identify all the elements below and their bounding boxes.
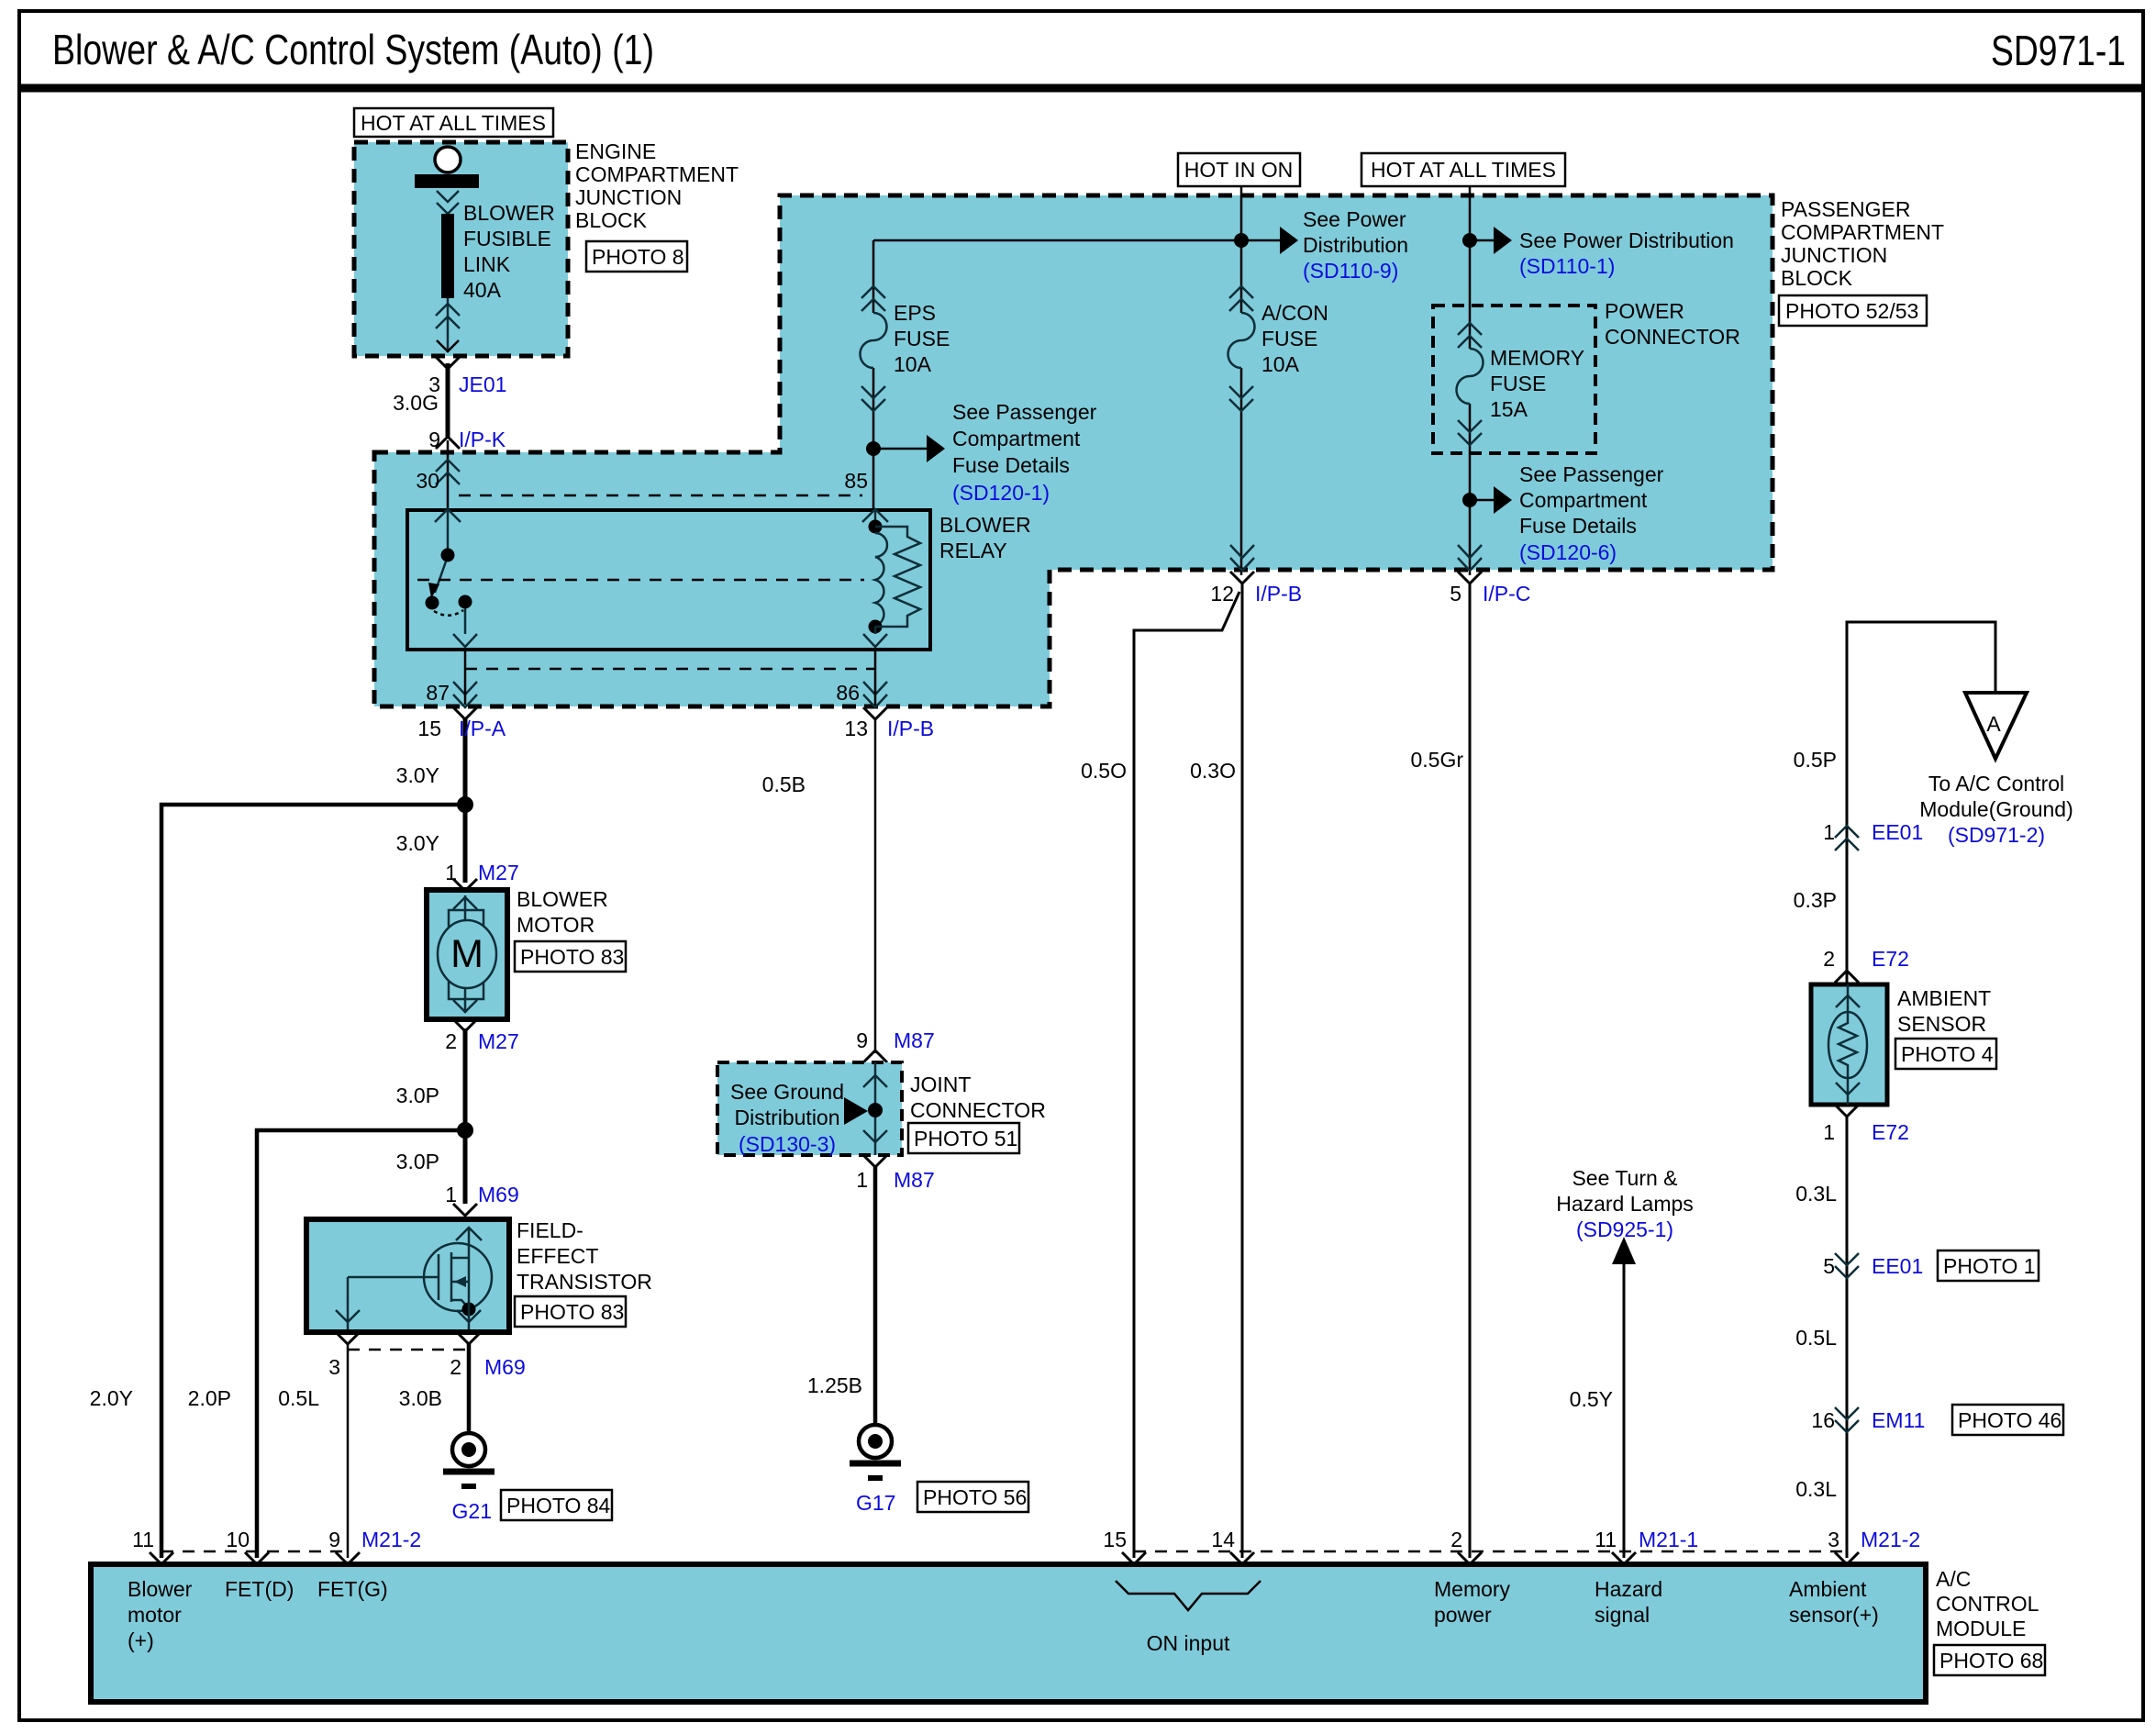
svg-text:Blower & A/C Control System (A: Blower & A/C Control System (Auto) (1) [52,26,654,73]
PHOTO 83 label (FET) [515,1296,626,1327]
wire 0.5P ambient sensor feed with top jog to A [1847,622,1995,851]
connector I/P-B pin 13 [844,707,934,740]
svg-text:EM11: EM11 [1872,1408,1925,1432]
callout see power distribution SD110-9 [1241,207,1408,283]
wire 1.25B from joint connector to ground G17 [873,1165,878,1425]
connector I/P-K pin 9 [428,428,506,451]
svg-text:I/P-B: I/P-B [887,717,934,740]
PHOTO 52/53 label [1779,295,1927,326]
svg-text:Hazard: Hazard [1595,1577,1662,1601]
callout to A/C control module ground SD971-2 [1919,772,2073,847]
node A to A/C control module ground [1965,693,2027,759]
svg-text:(SD120-1): (SD120-1) [952,481,1050,505]
wire 0.5O branch with jog to module pin 15 [1134,592,1239,1558]
svg-text:Distribution: Distribution [1303,233,1408,257]
svg-text:PHOTO 1: PHOTO 1 [1943,1254,2036,1278]
svg-text:PHOTO 52/53: PHOTO 52/53 [1785,299,1918,323]
svg-text:COMPARTMENT: COMPARTMENT [1781,220,1944,244]
svg-text:(SD971-2): (SD971-2) [1948,823,2045,847]
svg-text:12: 12 [1210,582,1234,606]
svg-text:BLOCK: BLOCK [1781,266,1853,290]
svg-text:COMPARTMENT: COMPARTMENT [575,162,739,186]
svg-text:A: A [1986,712,2001,736]
svg-text:1: 1 [445,1183,457,1206]
svg-text:(SD120-6): (SD120-6) [1519,540,1617,564]
svg-text:CONNECTOR: CONNECTOR [1605,325,1740,349]
svg-text:M87: M87 [894,1168,935,1192]
svg-text:See Power Distribution: See Power Distribution [1519,228,1734,252]
svg-text:Hazard Lamps: Hazard Lamps [1556,1192,1694,1216]
svg-text:SD971-1: SD971-1 [1991,27,2126,74]
relay switch [426,510,478,647]
module pin 14 connector [1211,1528,1254,1564]
svg-text:10A: 10A [1261,352,1300,376]
svg-text:M21-2: M21-2 [1861,1528,1920,1551]
callout see turn and hazard lamps SD925-1 [1556,1166,1694,1241]
field-effect transistor Q1 [306,1219,509,1332]
svg-text:10: 10 [226,1528,250,1551]
svg-text:Blower: Blower [128,1577,193,1601]
wire EPS fuse vertical [872,240,875,313]
svg-text:16: 16 [1811,1408,1835,1432]
svg-text:PHOTO 56: PHOTO 56 [923,1485,1027,1509]
connector M27 pin 1 [445,861,519,891]
svg-text:15: 15 [417,717,441,740]
svg-text:2.0P: 2.0P [188,1386,231,1410]
wire memory fuse vertical (hot at all times) [1469,186,1472,349]
svg-text:See Ground: See Ground [730,1080,844,1104]
svg-text:TRANSISTOR: TRANSISTOR [517,1270,652,1294]
blower fusible link 40A [415,147,479,352]
svg-text:0.5P: 0.5P [1794,748,1837,772]
svg-text:0.5Gr: 0.5Gr [1410,748,1463,772]
connector M69 pin 2 [450,1332,526,1379]
hazard arrowhead to turn and hazard lamps [1612,1237,1636,1264]
wire 3.0P from blower motor 2 to FET 1 [463,1028,468,1204]
svg-text:0.3O: 0.3O [1190,759,1236,783]
svg-text:PHOTO 68: PHOTO 68 [1939,1649,2043,1673]
power connector dashed box [1433,306,1595,453]
title separator line [19,84,2143,93]
svg-text:See Power: See Power [1303,207,1406,231]
svg-text:Module(Ground): Module(Ground) [1919,797,2073,821]
svg-text:15: 15 [1103,1528,1127,1551]
svg-text:Fuse Details: Fuse Details [1519,514,1637,538]
svg-text:sensor(+): sensor(+) [1789,1603,1879,1627]
svg-text:5: 5 [1823,1254,1835,1278]
I/P-B pin 12 exit arrow [1230,545,1254,571]
svg-text:Memory: Memory [1434,1577,1511,1601]
svg-text:AMBIENT: AMBIENT [1897,986,1991,1010]
dashed pin line module 15-14-2-11-3 [1134,1551,1847,1553]
ground G17 [850,1425,901,1515]
svg-text:3.0P: 3.0P [396,1084,439,1107]
I/P-C pin 5 exit arrow [1458,545,1482,571]
wire 3.0B from FET pin 2 to ground G21 [467,1343,472,1433]
svg-text:EPS: EPS [894,301,936,325]
svg-text:15A: 15A [1490,397,1528,421]
joint connector internal wire [863,1062,887,1155]
module pin 10 FET(D) connector [226,1528,269,1564]
svg-text:0.5O: 0.5O [1081,759,1127,783]
chevron arrow into relay region pin 30 [436,460,460,484]
svg-text:1: 1 [1823,1120,1835,1144]
wire from sensor E72 down through EE01 PHOTO1 and EM11 to module pin 3 [1846,1115,1849,1558]
module pin 3 ambient sensor connector M21-2 [1828,1528,1920,1564]
svg-text:EE01: EE01 [1872,820,1923,844]
junction node 3.0Y/2.0Y [457,796,473,813]
connector M69 pin 3 [328,1332,360,1379]
svg-text:1.25B: 1.25B [807,1373,862,1397]
blower motor [427,890,507,1019]
connector EE01 pin 1 [1823,820,1923,850]
svg-text:3.0G: 3.0G [393,391,439,415]
svg-text:1: 1 [1823,820,1835,844]
connector EM11 pin 16 [1811,1407,1925,1432]
svg-text:M: M [450,932,483,976]
connector E72 pin 2 [1823,947,1909,983]
svg-text:BLOWER: BLOWER [939,513,1031,537]
svg-text:PHOTO 84: PHOTO 84 [506,1494,611,1517]
svg-text:HOT AT ALL TIMES: HOT AT ALL TIMES [1371,158,1556,182]
svg-text:40A: 40A [463,278,502,302]
svg-text:0.5Y: 0.5Y [1570,1387,1613,1411]
connector I/P-A pin 15 [417,707,506,740]
callout see passenger compartment fuse details SD120-1 [873,400,1097,505]
callout see ground distribution SD130-3 [730,1080,868,1156]
svg-text:9: 9 [428,428,440,451]
svg-text:5: 5 [1450,582,1461,606]
svg-text:3.0Y: 3.0Y [396,763,439,787]
wire pin30 feed inside teal box [447,440,450,512]
svg-text:14: 14 [1211,1528,1235,1551]
svg-text:BLOWER: BLOWER [463,201,555,225]
svg-text:CONTROL: CONTROL [1936,1592,2039,1616]
connector M27 pin 2 [445,1019,519,1053]
svg-text:M21-2: M21-2 [361,1528,421,1551]
svg-text:EFFECT: EFFECT [517,1244,598,1268]
svg-text:PHOTO 46: PHOTO 46 [1958,1408,2062,1432]
svg-text:30: 30 [416,469,439,493]
svg-text:power: power [1434,1603,1492,1627]
svg-text:PHOTO 4: PHOTO 4 [1901,1042,1994,1066]
svg-text:JUNCTION: JUNCTION [575,185,682,209]
svg-text:FUSE: FUSE [1490,372,1546,395]
svg-text:MOTOR: MOTOR [517,913,595,937]
svg-text:See Passenger: See Passenger [1519,462,1664,486]
svg-text:motor: motor [128,1603,182,1627]
connector I/P-B pin 12 [1210,572,1302,606]
svg-text:PHOTO 83: PHOTO 83 [520,945,624,969]
svg-text:A/C: A/C [1936,1567,1971,1591]
module pin 11 hazard signal connector M21-1 [1595,1528,1698,1564]
svg-text:0.5B: 0.5B [762,773,806,796]
svg-text:M87: M87 [894,1028,935,1052]
wire 2.0Y branch to module pin 11 blower motor(+) [161,805,465,1558]
relay coil [863,510,887,647]
svg-text:FUSE: FUSE [894,327,950,350]
relay coil parallel resistor [875,527,920,627]
svg-text:JOINT: JOINT [910,1073,971,1096]
wire 0.5B from I/P-B 13 to joint connector M87 [874,717,877,1053]
svg-text:M27: M27 [478,861,519,884]
svg-text:M69: M69 [478,1183,519,1206]
PHOTO 68 label [1934,1645,2045,1675]
svg-text:2: 2 [450,1355,461,1379]
svg-text:Ambient: Ambient [1789,1577,1867,1601]
svg-text:ENGINE: ENGINE [575,139,656,163]
svg-text:86: 86 [836,681,860,705]
HOT AT ALL TIMES label (engine compartment) [354,108,553,137]
wire 0.3O from I/P-B 12 down to module pin 14 [1241,584,1244,1558]
svg-text:3: 3 [1828,1528,1839,1551]
wire 0.5Y hazard signal from module pin 11 up to arrow [1623,1261,1626,1558]
svg-text:10A: 10A [894,352,932,376]
PHOTO 56 label [917,1482,1028,1512]
node memory fuse to SD120-6 [1462,493,1477,507]
svg-text:0.5L: 0.5L [1795,1326,1837,1350]
connector M87 pin 9 [856,1028,935,1062]
svg-text:PHOTO 8: PHOTO 8 [592,245,684,269]
module pin 11 blower motor(+) connector [132,1528,173,1564]
PHOTO 51 label [908,1123,1019,1153]
svg-text:See Passenger: See Passenger [952,400,1097,424]
svg-text:HOT AT ALL TIMES: HOT AT ALL TIMES [361,111,546,135]
svg-text:3.0P: 3.0P [396,1150,439,1173]
svg-text:(+): (+) [128,1628,154,1652]
svg-text:RELAY: RELAY [939,539,1007,562]
svg-text:ON input: ON input [1147,1631,1230,1655]
svg-text:2: 2 [1450,1528,1462,1551]
svg-text:PASSENGER: PASSENGER [1781,197,1910,221]
svg-text:Distribution: Distribution [734,1106,839,1129]
svg-text:G21: G21 [452,1499,492,1523]
wire EPS fuse top horizontal feed [873,239,1241,242]
connector EE01 pin 5 [1823,1253,1923,1278]
svg-text:3.0Y: 3.0Y [396,831,439,855]
svg-text:EE01: EE01 [1872,1254,1923,1278]
blower relay box [407,510,930,650]
svg-text:I/P-K: I/P-K [459,428,506,451]
svg-text:9: 9 [856,1028,868,1052]
svg-text:HOT IN ON: HOT IN ON [1184,158,1293,182]
module pin 2 memory power connector [1450,1528,1482,1564]
svg-text:Fuse Details: Fuse Details [952,453,1070,477]
svg-text:9: 9 [328,1528,340,1551]
module pin 15 connector [1103,1528,1146,1564]
svg-text:MODULE: MODULE [1936,1617,2026,1640]
wire 3.0Y from I/P-A 15 down to blower motor [463,717,468,883]
PHOTO 4 label [1895,1039,1996,1069]
relay pin30 entry chevron [435,509,461,522]
PHOTO 46 label [1952,1405,2063,1435]
dashed pin line 87-86 [465,668,875,671]
joint connector box [717,1062,902,1155]
wire 0.5L from FET gate pin 3 to module pin 9 FET(G) [347,1343,350,1558]
svg-text:M21-1: M21-1 [1639,1528,1698,1551]
svg-text:(SD110-1): (SD110-1) [1519,254,1615,278]
svg-text:Compartment: Compartment [952,427,1081,450]
svg-text:I/P-B: I/P-B [1255,582,1302,606]
wire 0.5Gr from I/P-C 5 down to module pin 2 [1469,584,1472,1558]
svg-text:PHOTO 83: PHOTO 83 [520,1300,624,1324]
svg-text:FIELD-: FIELD- [517,1218,583,1242]
connector JE01 pin 3 [428,357,506,396]
engine compartment junction block box [354,142,568,356]
wire 2.0P branch to module pin 10 FET(D) [257,1130,465,1558]
svg-text:2: 2 [1823,947,1835,971]
node memory fuse to SD110-1 [1462,233,1477,248]
relay pin 86 exit arrow [863,650,887,707]
dashed pin line FET 3-2 [348,1349,469,1351]
svg-text:BLOWER: BLOWER [517,887,608,911]
svg-text:I/P-A: I/P-A [459,717,506,740]
relay pin 87 exit arrow [453,650,477,707]
A/C control module box [91,1564,1926,1702]
svg-text:E72: E72 [1872,947,1909,971]
dashed pin line module 11-10-9 [161,1551,348,1553]
svg-text:I/P-C: I/P-C [1483,582,1530,606]
svg-text:FUSIBLE: FUSIBLE [463,227,551,250]
svg-text:M69: M69 [484,1355,526,1379]
svg-text:FUSE: FUSE [1261,327,1317,350]
module pin 9 FET(G) connector M21-2 [328,1528,421,1564]
node A/CON to SD110-9 [1234,233,1249,248]
svg-text:JUNCTION: JUNCTION [1781,243,1887,267]
svg-text:POWER: POWER [1605,299,1684,323]
memory fuse 15A [1457,323,1484,445]
relay pin 85 entry chevron [862,509,888,522]
PHOTO 83 label (motor) [515,941,626,972]
svg-text:85: 85 [844,469,868,493]
svg-text:M27: M27 [478,1029,519,1053]
svg-text:To A/C Control: To A/C Control [1928,772,2064,795]
svg-text:See Turn &: See Turn & [1572,1166,1677,1190]
svg-text:(SD130-3): (SD130-3) [739,1132,836,1156]
svg-text:A/CON: A/CON [1261,301,1328,325]
wire A/CON hot in on vertical [1240,186,1243,313]
connector E72 pin 1 [1823,1105,1909,1144]
svg-text:(SD925-1): (SD925-1) [1576,1217,1673,1241]
A/CON fuse 10A [1228,286,1255,411]
connector M69 pin 1 [445,1183,519,1216]
connector I/P-C pin 5 [1450,572,1530,606]
svg-text:JE01: JE01 [459,372,506,396]
EPS fuse 10A [861,286,887,411]
svg-text:G17: G17 [856,1491,895,1515]
svg-text:CONNECTOR: CONNECTOR [910,1098,1046,1122]
svg-text:0.5L: 0.5L [278,1386,319,1410]
svg-text:FET(G): FET(G) [317,1577,388,1601]
connector M87 pin 1 [856,1155,935,1192]
svg-text:0.3L: 0.3L [1795,1182,1837,1206]
callout see passenger compartment fuse details SD120-6 [1470,462,1664,564]
svg-text:1: 1 [856,1168,868,1192]
svg-text:BLOCK: BLOCK [575,208,648,232]
HOT IN ON label [1178,153,1300,186]
ON input brace [1116,1581,1261,1610]
node EPS to SD120-1 [866,441,881,456]
PHOTO 1 label [1938,1250,2039,1281]
svg-text:2: 2 [445,1029,457,1053]
svg-text:3.0B: 3.0B [399,1386,442,1410]
relay internal dashed divider [417,579,864,582]
svg-text:SENSOR: SENSOR [1897,1012,1986,1036]
junction node 3.0P/2.0P [457,1122,473,1139]
wire 0.3P between EE01 and E72 [1846,846,1849,984]
wire 3.0G from fusible link JE01 to I/P-K [446,363,450,437]
svg-text:E72: E72 [1872,1120,1909,1144]
svg-text:11: 11 [1595,1528,1617,1551]
svg-text:LINK: LINK [463,252,511,276]
PHOTO 8 label [586,241,687,272]
svg-text:3: 3 [328,1355,340,1379]
svg-text:0.3P: 0.3P [1794,888,1837,912]
big teal passenger compartment junction block + relay region [374,195,1773,706]
svg-text:Compartment: Compartment [1519,488,1648,512]
PHOTO 84 label [501,1490,612,1520]
svg-text:MEMORY: MEMORY [1490,346,1584,370]
svg-text:13: 13 [844,717,868,740]
svg-text:2.0Y: 2.0Y [90,1386,133,1410]
ambient sensor [1811,984,1887,1105]
svg-text:signal: signal [1595,1603,1650,1627]
svg-text:11: 11 [132,1528,154,1551]
svg-text:(SD110-9): (SD110-9) [1303,259,1398,283]
svg-text:FET(D): FET(D) [225,1577,294,1601]
ground G21 [443,1433,495,1523]
svg-text:0.3L: 0.3L [1795,1477,1837,1501]
svg-text:87: 87 [426,681,450,705]
dashed pin line 30-85 [459,495,862,497]
callout see power distribution SD110-1 [1470,227,1734,278]
HOT AT ALL TIMES label (passenger) [1361,153,1565,186]
svg-text:PHOTO 51: PHOTO 51 [914,1127,1017,1150]
